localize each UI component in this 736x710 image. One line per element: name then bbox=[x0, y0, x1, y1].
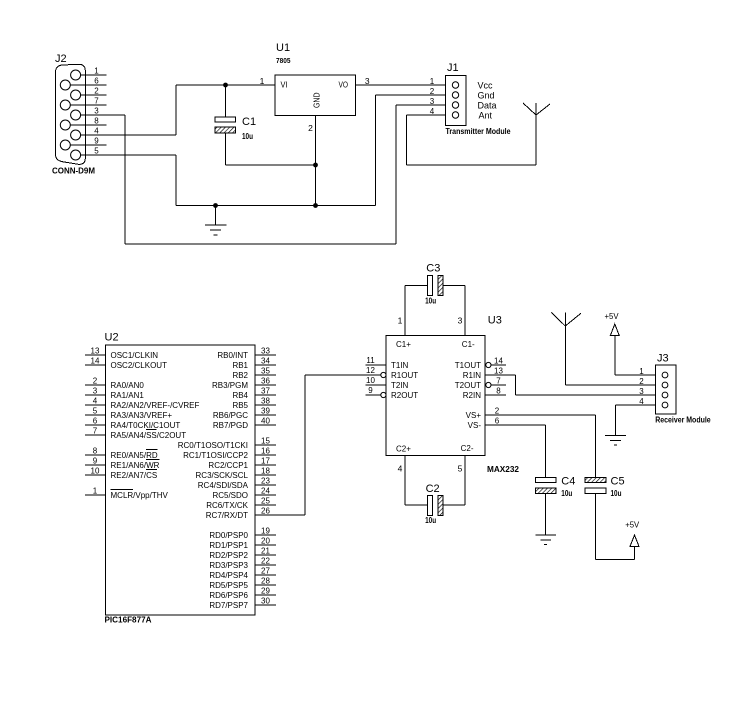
svg-text:R2IN: R2IN bbox=[463, 391, 481, 400]
svg-text:Transmitter Module: Transmitter Module bbox=[446, 126, 511, 136]
svg-text:25: 25 bbox=[261, 497, 270, 506]
svg-text:22: 22 bbox=[261, 557, 270, 566]
svg-text:J3: J3 bbox=[657, 353, 669, 365]
svg-text:8: 8 bbox=[93, 447, 98, 456]
svg-text:37: 37 bbox=[261, 387, 270, 396]
svg-text:RD1/PSP1: RD1/PSP1 bbox=[209, 541, 248, 550]
svg-text:2: 2 bbox=[93, 377, 98, 386]
svg-text:10u: 10u bbox=[611, 489, 622, 498]
svg-text:1: 1 bbox=[94, 67, 99, 76]
svg-text:RB7/PGD: RB7/PGD bbox=[213, 421, 248, 430]
svg-text:J1: J1 bbox=[447, 62, 459, 74]
svg-text:30: 30 bbox=[261, 597, 270, 606]
svg-text:15: 15 bbox=[261, 437, 270, 446]
svg-text:PIC16F877A: PIC16F877A bbox=[105, 615, 152, 625]
svg-text:RA2/AN2/VREF-/CVREF: RA2/AN2/VREF-/CVREF bbox=[111, 401, 200, 410]
svg-text:VI: VI bbox=[281, 81, 288, 90]
svg-text:RB5: RB5 bbox=[232, 401, 248, 410]
svg-text:26: 26 bbox=[261, 507, 270, 516]
svg-text:R1OUT: R1OUT bbox=[391, 371, 418, 380]
svg-text:J2: J2 bbox=[55, 53, 67, 65]
svg-text:RC5/SDO: RC5/SDO bbox=[212, 491, 248, 500]
svg-text:RA4/T0CKI/C1OUT: RA4/T0CKI/C1OUT bbox=[111, 421, 181, 430]
svg-text:RD3/PSP3: RD3/PSP3 bbox=[209, 561, 248, 570]
svg-text:OSC1/CLKIN: OSC1/CLKIN bbox=[111, 351, 159, 360]
svg-text:RC7/RX/DT: RC7/RX/DT bbox=[206, 511, 248, 520]
svg-text:RC0/T1OSO/T1CKI: RC0/T1OSO/T1CKI bbox=[178, 441, 248, 450]
svg-text:Receiver Module: Receiver Module bbox=[655, 415, 711, 425]
svg-text:RD6/PSP6: RD6/PSP6 bbox=[209, 591, 248, 600]
svg-text:8: 8 bbox=[496, 387, 501, 396]
svg-text:4: 4 bbox=[639, 397, 644, 406]
svg-text:RE2/AN7/CS: RE2/AN7/CS bbox=[111, 471, 158, 480]
svg-text:OSC2/CLKOUT: OSC2/CLKOUT bbox=[111, 361, 168, 370]
svg-text:12: 12 bbox=[366, 366, 375, 375]
svg-text:3: 3 bbox=[93, 387, 98, 396]
svg-text:1: 1 bbox=[639, 367, 644, 376]
svg-text:RD0/PSP0: RD0/PSP0 bbox=[209, 531, 248, 540]
svg-text:14: 14 bbox=[494, 357, 503, 366]
svg-text:10u: 10u bbox=[242, 132, 253, 141]
svg-text:27: 27 bbox=[261, 567, 270, 576]
svg-text:Ant: Ant bbox=[479, 111, 493, 121]
svg-text:MCLR/Vpp/THV: MCLR/Vpp/THV bbox=[111, 491, 169, 500]
svg-text:RC3/SCK/SCL: RC3/SCK/SCL bbox=[196, 471, 249, 480]
svg-text:34: 34 bbox=[261, 357, 270, 366]
svg-text:9: 9 bbox=[368, 386, 373, 395]
svg-text:1: 1 bbox=[398, 316, 403, 326]
svg-text:RB0/INT: RB0/INT bbox=[217, 351, 248, 360]
svg-text:RB2: RB2 bbox=[232, 371, 248, 380]
svg-text:C3: C3 bbox=[426, 263, 440, 275]
svg-text:5: 5 bbox=[93, 407, 98, 416]
svg-text:RE0/AN5/RD: RE0/AN5/RD bbox=[111, 451, 158, 460]
svg-text:4: 4 bbox=[430, 107, 435, 116]
svg-text:16: 16 bbox=[261, 447, 270, 456]
svg-text:RC2/CCP1: RC2/CCP1 bbox=[208, 461, 248, 470]
svg-text:10: 10 bbox=[91, 467, 100, 476]
svg-text:T2OUT: T2OUT bbox=[455, 381, 481, 390]
svg-text:10u: 10u bbox=[425, 516, 436, 525]
svg-text:13: 13 bbox=[494, 367, 503, 376]
svg-text:11: 11 bbox=[366, 356, 375, 365]
svg-text:+5V: +5V bbox=[625, 520, 639, 530]
svg-text:8: 8 bbox=[94, 117, 99, 126]
svg-text:10u: 10u bbox=[561, 489, 572, 498]
svg-text:T1OUT: T1OUT bbox=[455, 361, 481, 370]
svg-text:C1+: C1+ bbox=[396, 340, 411, 349]
svg-text:R2OUT: R2OUT bbox=[391, 391, 418, 400]
svg-text:5: 5 bbox=[94, 147, 99, 156]
svg-text:17: 17 bbox=[261, 457, 270, 466]
svg-text:R1IN: R1IN bbox=[463, 371, 481, 380]
svg-text:9: 9 bbox=[94, 137, 99, 146]
svg-text:U1: U1 bbox=[276, 42, 290, 54]
svg-text:36: 36 bbox=[261, 377, 270, 386]
svg-text:RB3/PGM: RB3/PGM bbox=[212, 381, 248, 390]
svg-text:U2: U2 bbox=[105, 332, 119, 344]
svg-text:C5: C5 bbox=[611, 476, 625, 488]
svg-text:2: 2 bbox=[94, 87, 99, 96]
svg-text:MAX232: MAX232 bbox=[487, 464, 519, 474]
svg-text:1: 1 bbox=[430, 77, 435, 86]
svg-text:6: 6 bbox=[93, 417, 98, 426]
svg-text:C1-: C1- bbox=[462, 340, 475, 349]
svg-text:19: 19 bbox=[261, 527, 270, 536]
svg-text:VS+: VS+ bbox=[466, 411, 482, 420]
svg-text:2: 2 bbox=[639, 377, 644, 386]
svg-text:Data: Data bbox=[478, 101, 497, 111]
svg-text:Vcc: Vcc bbox=[478, 81, 494, 91]
svg-text:RD5/PSP5: RD5/PSP5 bbox=[209, 581, 248, 590]
svg-text:3: 3 bbox=[639, 387, 644, 396]
svg-text:4: 4 bbox=[398, 464, 403, 474]
svg-text:VO: VO bbox=[339, 81, 349, 90]
svg-text:RD4/PSP4: RD4/PSP4 bbox=[209, 571, 248, 580]
svg-text:RB4: RB4 bbox=[232, 391, 248, 400]
svg-text:Gnd: Gnd bbox=[478, 91, 495, 101]
svg-text:U3: U3 bbox=[488, 315, 502, 327]
svg-text:RC6/TX/CK: RC6/TX/CK bbox=[206, 501, 248, 510]
svg-text:+5V: +5V bbox=[605, 311, 619, 321]
svg-text:6: 6 bbox=[495, 417, 500, 426]
svg-text:2: 2 bbox=[308, 123, 313, 133]
svg-text:10u: 10u bbox=[425, 297, 436, 306]
svg-text:RC4/SDI/SDA: RC4/SDI/SDA bbox=[198, 481, 249, 490]
svg-text:C2-: C2- bbox=[461, 444, 474, 453]
svg-text:C1: C1 bbox=[242, 116, 256, 128]
svg-text:7: 7 bbox=[496, 377, 501, 386]
svg-text:7805: 7805 bbox=[276, 56, 291, 65]
svg-text:9: 9 bbox=[93, 457, 98, 466]
svg-text:RD7/PSP7: RD7/PSP7 bbox=[209, 601, 248, 610]
svg-text:21: 21 bbox=[261, 547, 270, 556]
svg-text:1: 1 bbox=[93, 487, 98, 496]
svg-text:3: 3 bbox=[365, 76, 370, 86]
svg-text:39: 39 bbox=[261, 407, 270, 416]
svg-text:7: 7 bbox=[93, 427, 98, 436]
svg-text:2: 2 bbox=[430, 87, 435, 96]
svg-text:29: 29 bbox=[261, 587, 270, 596]
svg-text:RB1: RB1 bbox=[232, 361, 248, 370]
svg-text:33: 33 bbox=[261, 347, 270, 356]
svg-text:13: 13 bbox=[91, 347, 100, 356]
svg-text:14: 14 bbox=[91, 357, 100, 366]
svg-text:CONN-D9M: CONN-D9M bbox=[52, 166, 95, 176]
svg-text:35: 35 bbox=[261, 367, 270, 376]
svg-text:7: 7 bbox=[94, 97, 99, 106]
svg-text:GND: GND bbox=[313, 92, 322, 108]
svg-text:3: 3 bbox=[458, 316, 463, 326]
svg-text:20: 20 bbox=[261, 537, 270, 546]
svg-text:1: 1 bbox=[260, 76, 265, 86]
svg-text:28: 28 bbox=[261, 577, 270, 586]
svg-text:40: 40 bbox=[261, 417, 270, 426]
svg-text:4: 4 bbox=[94, 127, 99, 136]
svg-text:C2: C2 bbox=[426, 483, 440, 495]
svg-text:6: 6 bbox=[94, 77, 99, 86]
svg-text:C4: C4 bbox=[561, 476, 575, 488]
svg-text:C2+: C2+ bbox=[396, 445, 411, 454]
svg-text:RD2/PSP2: RD2/PSP2 bbox=[209, 551, 248, 560]
svg-text:RC1/T1OSI/CCP2: RC1/T1OSI/CCP2 bbox=[183, 451, 248, 460]
svg-text:38: 38 bbox=[261, 397, 270, 406]
svg-text:3: 3 bbox=[430, 97, 435, 106]
svg-text:18: 18 bbox=[261, 467, 270, 476]
svg-text:24: 24 bbox=[261, 487, 270, 496]
svg-text:4: 4 bbox=[93, 397, 98, 406]
svg-text:10: 10 bbox=[366, 376, 375, 385]
svg-text:RA1/AN1: RA1/AN1 bbox=[111, 391, 145, 400]
svg-text:RB6/PGC: RB6/PGC bbox=[213, 411, 248, 420]
svg-text:RA5/AN4/SS/C2OUT: RA5/AN4/SS/C2OUT bbox=[111, 431, 187, 440]
svg-text:RE1/AN6/WR: RE1/AN6/WR bbox=[111, 461, 160, 470]
svg-text:T2IN: T2IN bbox=[391, 381, 409, 390]
svg-text:VS-: VS- bbox=[468, 421, 482, 430]
svg-text:23: 23 bbox=[261, 477, 270, 486]
svg-text:RA0/AN0: RA0/AN0 bbox=[111, 381, 145, 390]
svg-text:2: 2 bbox=[495, 407, 500, 416]
svg-text:5: 5 bbox=[458, 464, 463, 474]
svg-text:3: 3 bbox=[94, 107, 99, 116]
svg-text:RA3/AN3/VREF+: RA3/AN3/VREF+ bbox=[111, 411, 173, 420]
svg-text:T1IN: T1IN bbox=[391, 361, 409, 370]
